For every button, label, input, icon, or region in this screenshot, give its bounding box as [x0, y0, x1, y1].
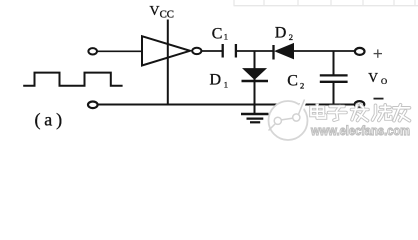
svg-text:2: 2: [300, 81, 304, 91]
wire bubble to C1: [201, 50, 222, 52]
svg-text:C: C: [287, 72, 298, 89]
svg-text:CC: CC: [160, 9, 174, 21]
node: D1 tap on top wire, vertical branch: [254, 51, 256, 114]
op-amp / inverter triangle: [142, 36, 190, 65]
plus sign: [374, 49, 382, 57]
bottom rail wire: [98, 104, 355, 106]
wire C1 to D2: [237, 50, 274, 52]
ground: [241, 114, 269, 122]
watermark logo circle: [269, 100, 308, 141]
Vcc supply line: [167, 20, 169, 105]
svg-text:V: V: [368, 70, 378, 85]
svg-text:D: D: [275, 25, 287, 42]
char 友: [394, 106, 410, 110]
inverter output bubble: [192, 48, 201, 54]
char 子: [330, 105, 344, 109]
svg-text:O: O: [381, 76, 387, 86]
output terminal - (bottom-right): [355, 101, 365, 107]
svg-text:1: 1: [224, 32, 228, 42]
wire node to C2: [333, 51, 335, 75]
char 发: [352, 108, 369, 112]
minus sign: [374, 98, 384, 100]
input terminal (top-left): [88, 48, 97, 54]
capacitor C1: [222, 44, 224, 58]
svg-text:www.elecfans.com: www.elecfans.com: [310, 123, 410, 138]
svg-text:C: C: [212, 25, 223, 42]
input square wave: [23, 73, 122, 86]
wire D2 to output terminal: [294, 50, 356, 52]
output terminal + (top-right): [355, 48, 365, 55]
svg-text:(a): (a): [35, 110, 66, 131]
svg-text:D: D: [210, 72, 222, 89]
svg-text:1: 1: [224, 80, 228, 90]
diode D1 (vertical, pointing down): [243, 69, 265, 80]
capacitor C2: [320, 74, 348, 76]
char 电: [311, 107, 324, 116]
svg-text:V: V: [150, 3, 160, 18]
char 烧: [374, 105, 378, 114]
svg-text:2: 2: [289, 32, 293, 42]
table border remnant (cropped content above): [234, 0, 418, 6]
diode D2 (pointing left): [272, 45, 274, 60]
wire input to amplifier: [97, 50, 142, 52]
watermark text 电子发烧友 (stylized outlined strokes): [311, 105, 410, 121]
input terminal (bottom-left): [88, 102, 98, 109]
